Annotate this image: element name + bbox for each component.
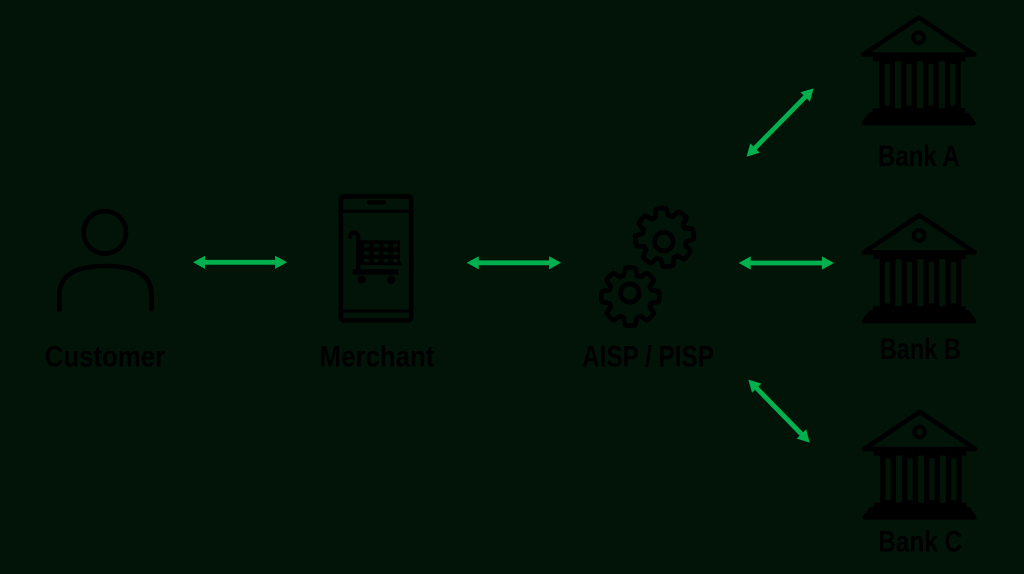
arrow aisp-bankB: [739, 256, 834, 269]
arrow merchant-aisp: [467, 256, 561, 269]
arrow customer-merchant: [193, 256, 287, 269]
svg-text:Bank B: Bank B: [880, 333, 961, 366]
merchant phone frame: [339, 196, 414, 320]
bank B icon: [864, 215, 975, 321]
svg-text:Customer: Customer: [45, 341, 165, 374]
gear 2 (bottom): [601, 268, 659, 326]
svg-text:Bank C: Bank C: [878, 526, 962, 559]
bank C icon: [864, 412, 975, 518]
svg-text:Bank A: Bank A: [878, 140, 960, 173]
gear 1 (top): [635, 208, 694, 267]
bank A icon: [863, 18, 974, 124]
svg-text:Merchant: Merchant: [320, 341, 435, 374]
svg-text:AISP / PISP: AISP / PISP: [582, 341, 714, 374]
arrow aisp-bankC: [748, 380, 810, 443]
phone speaker: [367, 200, 387, 204]
customer icon: [59, 211, 151, 309]
arrow aisp-bankA: [747, 88, 814, 156]
shopping cart in phone: [350, 232, 403, 284]
